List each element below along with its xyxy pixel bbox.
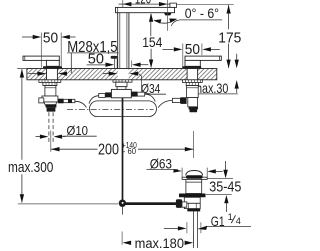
svg-text:175: 175 [218, 30, 241, 46]
left valve: tail cone [44, 102, 57, 105]
left valve: washer under deck [39, 80, 61, 83]
spout outlet (mousseur), black [164, 13, 172, 16]
tilted spout tip (6° position) [170, 3, 177, 8]
Ø63 right arrow and tail [207, 169, 216, 173]
left handle base plate [43, 66, 62, 68]
dimension max.180 [121, 232, 123, 245]
spout tee: left hose nut [105, 92, 111, 97]
pop-up rod below deck [122, 98, 124, 201]
dimension 200 +140/-60 [193, 131, 195, 158]
svg-text:4: 4 [236, 216, 241, 226]
spout shank nut [116, 82, 127, 87]
drain: upper body [186, 179, 202, 193]
right handle base plate [182, 66, 201, 68]
svg-text:Ø10: Ø10 [67, 123, 89, 138]
pop-up pull rod knob [111, 56, 118, 59]
hose curve: tee right to loop [145, 94, 156, 102]
right valve: washer under deck [182, 80, 202, 83]
flexible hose loop (capsule) [90, 101, 157, 117]
dimension Ø34 arrows at deck [103, 71, 138, 75]
right valve shank walls through deck [186, 69, 188, 80]
dash-dot centre line through loop [67, 108, 154, 110]
left valve: lower nuts [46, 104, 57, 107]
spout shank: washer under deck [113, 80, 132, 82]
left valve: dashed supply pipes Ø10 [48, 112, 50, 142]
dimension 50 left: arrows and line [22, 35, 76, 39]
left valve shank walls through deck [46, 69, 48, 80]
hose curve: tee left to loop [89, 96, 99, 104]
left handle lever [23, 56, 59, 60]
svg-text:50: 50 [185, 42, 200, 58]
dimension 154 [149, 13, 153, 68]
drain: Ø63 extension ticks [181, 168, 183, 178]
drain: seal band [179, 194, 206, 198]
reference baseline [18, 203, 118, 205]
svg-text:- 60: - 60 [123, 146, 137, 156]
dimension Ø10 [36, 134, 67, 138]
left valve: cartridge body [45, 86, 56, 96]
horizontal lever to drain [124, 202, 177, 205]
dimension 120 extension line left [122, 0, 124, 7]
label G1 1/4 [186, 222, 188, 233]
drain: mid body [184, 197, 200, 203]
spout tee body [111, 89, 131, 97]
right valve: lower nuts [189, 107, 198, 110]
hose curve: right valve to loop [158, 100, 172, 107]
rod tail below ball [122, 207, 124, 215]
label Ø34 [138, 74, 141, 95]
svg-text:35-45: 35-45 [209, 178, 241, 195]
dimension 120 line and arrows [119, 2, 172, 6]
dimension 50 right: extension lines [182, 44, 184, 68]
svg-text:G1: G1 [211, 214, 225, 229]
drain: tailpipe [192, 211, 194, 248]
spout arm bar [116, 7, 175, 12]
right valve: locknut [186, 82, 198, 85]
right valve: inlet tube [188, 98, 198, 107]
left valve: hose nut right [58, 99, 63, 104]
drain: plug seal capsule [186, 175, 203, 179]
drain: plug dome [186, 171, 203, 176]
right handle lever [185, 56, 221, 60]
dimension max.300 [20, 69, 24, 203]
pop-up pull rod [114, 59, 116, 69]
left valve: left stub [39, 98, 44, 103]
dimension 50 left: extension lines [40, 33, 42, 68]
svg-text:50: 50 [43, 31, 58, 47]
outlet axis line (120 right extension) [167, 0, 169, 31]
M28 leader to left valve shank [70, 53, 72, 73]
right handle post [185, 60, 200, 66]
svg-text:max.180: max.180 [135, 236, 184, 251]
drain: bottom band [187, 209, 200, 212]
svg-text:max.300: max.300 [8, 160, 53, 176]
svg-text:120: 120 [135, 0, 151, 7]
dimension 175 [177, 3, 234, 5]
dimension 35-45 [207, 178, 233, 180]
svg-text:200: 200 [98, 142, 119, 159]
dimension 50 right: arrows [162, 47, 219, 51]
svg-text:154: 154 [142, 35, 162, 50]
spout column (riser) [118, 13, 129, 69]
hose curve: left valve to loop [75, 101, 87, 107]
drain: clevis [182, 202, 187, 207]
countertop deck slab with hatching [27, 69, 217, 80]
left valve: lower body [42, 96, 58, 102]
left handle post [46, 60, 59, 66]
right valve: body [187, 86, 199, 98]
dimension max.30 [235, 54, 239, 93]
left valve: locknut [43, 82, 57, 85]
svg-text:1: 1 [228, 212, 233, 222]
deck top extension line (left, for max.300) [17, 68, 27, 70]
left valve: centre line [50, 131, 52, 152]
pivot ball [119, 200, 126, 207]
drain: locknut [184, 203, 200, 208]
drain: side ball knob [176, 199, 182, 208]
right valve: hose nut left [180, 97, 186, 104]
drain: flange plate [182, 177, 207, 179]
svg-text:0° - 6°: 0° - 6° [185, 6, 219, 21]
tilt arc 0-6 degrees [154, 19, 177, 23]
spout tee: right hose nut [131, 92, 137, 97]
